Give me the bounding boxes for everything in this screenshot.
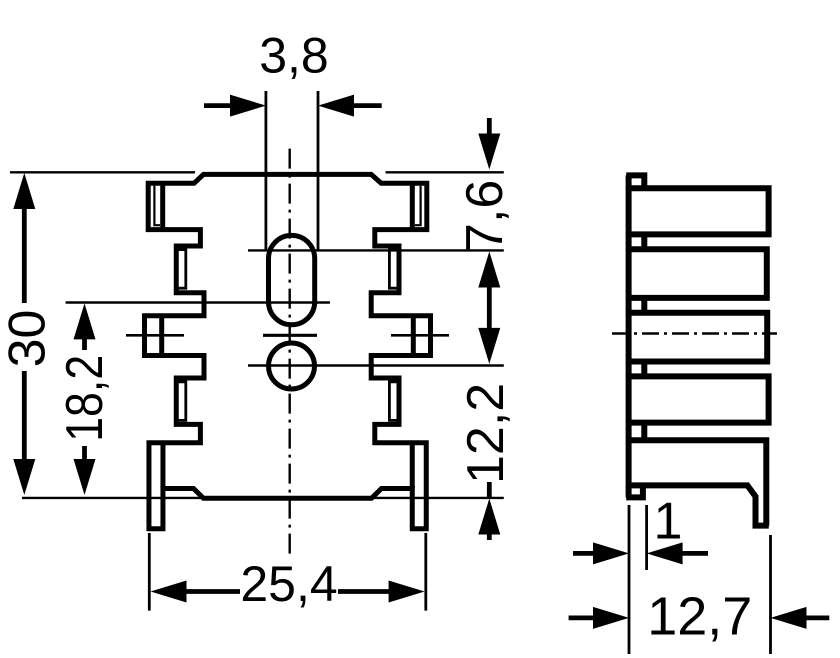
recess 1 right fold line <box>389 250 396 289</box>
svg-text:18,2: 18,2 <box>56 355 114 442</box>
dimension 1 left tail <box>573 551 597 556</box>
side view horizontal centerline (dash-dot) <box>612 332 777 334</box>
arrow 3,8 right <box>318 95 354 117</box>
arrow 30 bottom <box>13 459 35 495</box>
svg-text:1: 1 <box>654 493 683 551</box>
horizontal center tick middle <box>263 334 317 337</box>
fin 1 left fold line <box>154 186 160 225</box>
arrow 7,6 top (outside) <box>478 134 500 170</box>
side view hook 5 <box>641 423 647 441</box>
fin 1 right fold line <box>415 186 421 225</box>
arrow 3,8 left <box>230 95 266 117</box>
arrow 12,2 top (outside) <box>478 328 500 364</box>
recess 2 right fold line <box>389 382 396 421</box>
horizontal center tick left <box>126 334 184 337</box>
arrow 12,7 right (outside) <box>771 607 807 629</box>
slot upper arc reference line (7,6) <box>248 249 504 251</box>
side view hook 2 <box>641 234 647 249</box>
arrow 18,2 bottom <box>74 459 96 495</box>
front view left leg inner edge upper segment <box>160 445 165 489</box>
dimension 3,8 right extension line <box>317 91 320 250</box>
svg-text:30: 30 <box>0 310 57 368</box>
front view right leg inner edge upper segment <box>410 445 415 489</box>
round hole <box>269 343 315 389</box>
arrow 18,2 top <box>74 303 96 339</box>
side view bottom shoulder and foot <box>629 485 769 525</box>
arrow 25,4 right <box>389 581 425 603</box>
arrow 25,4 left <box>151 581 187 603</box>
fin 1 left inner wall <box>160 183 165 229</box>
top reference line right part <box>386 171 504 173</box>
arrow 1 left (outside) <box>593 542 629 564</box>
arrow 1 right (outside) <box>647 542 683 564</box>
slot hole (oblong) <box>269 235 315 324</box>
side view fin 3 <box>626 313 767 362</box>
side view hook 4 <box>641 362 647 377</box>
arrow 7,6 bottom (outside) <box>478 252 500 288</box>
svg-text:3,8: 3,8 <box>259 28 329 84</box>
dimension 3,8 left extension line <box>264 91 267 250</box>
recess 2 left fold line <box>179 382 186 421</box>
top reference line (30 / 7,6) left part <box>10 171 195 173</box>
dimension 3,8 left tail <box>204 103 234 108</box>
dimension 12,7 left tail <box>569 616 597 621</box>
fin 2 right inner wall <box>411 316 416 356</box>
dimension 25,4 left extension line <box>148 533 151 611</box>
side view fin 4 <box>626 376 768 422</box>
svg-text:7,6: 7,6 <box>456 180 514 252</box>
arrow 30 top <box>13 173 35 209</box>
fin 2 left inner wall <box>159 316 164 356</box>
dimension 12,7 right tail <box>803 616 829 621</box>
dimension 12,2 line tails <box>487 482 492 497</box>
dimension 1 left extension line <box>628 505 631 654</box>
dimension 12,7 right extension line <box>769 535 772 654</box>
side view leg row top <box>629 440 767 525</box>
side view spine bottom hook <box>626 485 643 497</box>
hole center reference line (12,2) <box>248 364 504 366</box>
front view body outline <box>145 174 431 528</box>
side view fin 1 <box>626 188 768 234</box>
dimension 1 right extension line <box>645 505 648 570</box>
dimension 30 line <box>22 205 27 303</box>
arrow 12,2 bottom (outside) <box>478 499 500 535</box>
svg-text:25,4: 25,4 <box>240 556 337 612</box>
side view top cap <box>626 175 644 188</box>
bottom reference line <box>22 497 504 499</box>
side view hook 3 <box>641 298 647 313</box>
dimension 1 right tail <box>679 551 708 556</box>
dimension 7,6 line tails <box>487 118 492 136</box>
arrow 12,7 left (outside) <box>593 607 629 629</box>
side view fin 2 <box>626 249 767 298</box>
dimension 18,2 line <box>82 339 87 350</box>
slot lower arc reference line (18,2) <box>66 301 330 303</box>
svg-text:12,7: 12,7 <box>647 587 752 647</box>
side view spine <box>626 175 632 497</box>
dimension 3,8 right tail <box>350 103 382 108</box>
horizontal center tick right <box>391 334 449 337</box>
dimension 25,4 line <box>186 589 240 594</box>
svg-text:12,2: 12,2 <box>457 383 515 484</box>
dimension 25,4 right extension line <box>424 533 427 611</box>
recess 1 left fold line <box>179 250 186 289</box>
fin 1 right inner wall <box>410 183 415 229</box>
vertical centerline (dash-dot) <box>289 149 291 556</box>
